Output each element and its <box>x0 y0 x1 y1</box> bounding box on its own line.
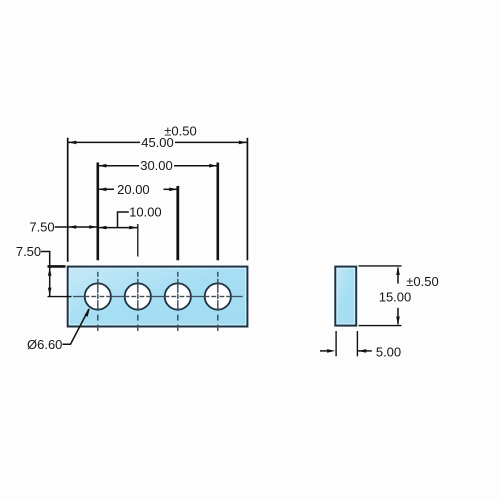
extension tick plate top left <box>48 265 66 268</box>
svg-text:15.00: 15.00 <box>379 289 412 304</box>
svg-text:20.00: 20.00 <box>117 182 150 197</box>
svg-text:±0.50: ±0.50 <box>164 124 196 139</box>
extension line hole 1 <box>97 163 100 261</box>
center mark dashes hole 4 <box>205 296 231 298</box>
extension line hole 4 <box>217 163 220 261</box>
svg-text:30.00: 30.00 <box>140 158 173 173</box>
extension line side bottom <box>359 325 402 327</box>
extension line left edge (45.00) <box>67 138 69 262</box>
vertical centerline hole 4 <box>217 272 219 331</box>
center mark dashes hole 1 <box>85 296 111 298</box>
svg-text:Ø6.60: Ø6.60 <box>27 337 62 352</box>
dimension 20.00 <box>98 188 178 190</box>
dimension 7.50 vertical <box>41 252 50 297</box>
extension line side right bottom <box>356 331 358 356</box>
svg-text:5.00: 5.00 <box>376 344 401 359</box>
dimension 7.50 horizontal <box>55 226 98 228</box>
hole 2 <box>125 283 151 309</box>
svg-text:7.50: 7.50 <box>16 244 41 259</box>
hole 4 <box>205 283 231 309</box>
svg-text:7.50: 7.50 <box>29 219 54 234</box>
vertical centerline hole 2 <box>137 272 139 331</box>
dimension 15.00 <box>397 268 399 325</box>
hole 3 <box>165 283 191 309</box>
leader 10.00 <box>118 212 129 228</box>
leader diameter 6.60 <box>63 309 90 344</box>
extension line side left bottom <box>335 331 337 356</box>
front view plate <box>68 267 248 327</box>
extension line side top <box>359 265 402 267</box>
dimension 5.00 <box>320 350 372 352</box>
extension line hole 3 <box>176 186 179 260</box>
dimension 30.00 <box>98 165 218 167</box>
svg-text:10.00: 10.00 <box>129 204 162 219</box>
dimension 10.00 <box>98 227 138 229</box>
horizontal centerline through holes <box>73 296 243 298</box>
side view plate <box>335 267 356 326</box>
center mark dashes hole 3 <box>165 296 191 298</box>
extension line right edge (45.00) <box>246 138 248 260</box>
vertical centerline hole 3 <box>177 272 179 331</box>
hole 1 <box>85 283 111 309</box>
center mark dashes hole 2 <box>125 296 151 298</box>
extension centerline left <box>48 296 72 298</box>
extension line hole 2 <box>137 224 139 257</box>
dimension 45.00 <box>68 141 248 143</box>
vertical centerline hole 1 <box>97 272 99 331</box>
svg-text:±0.50: ±0.50 <box>406 274 438 289</box>
